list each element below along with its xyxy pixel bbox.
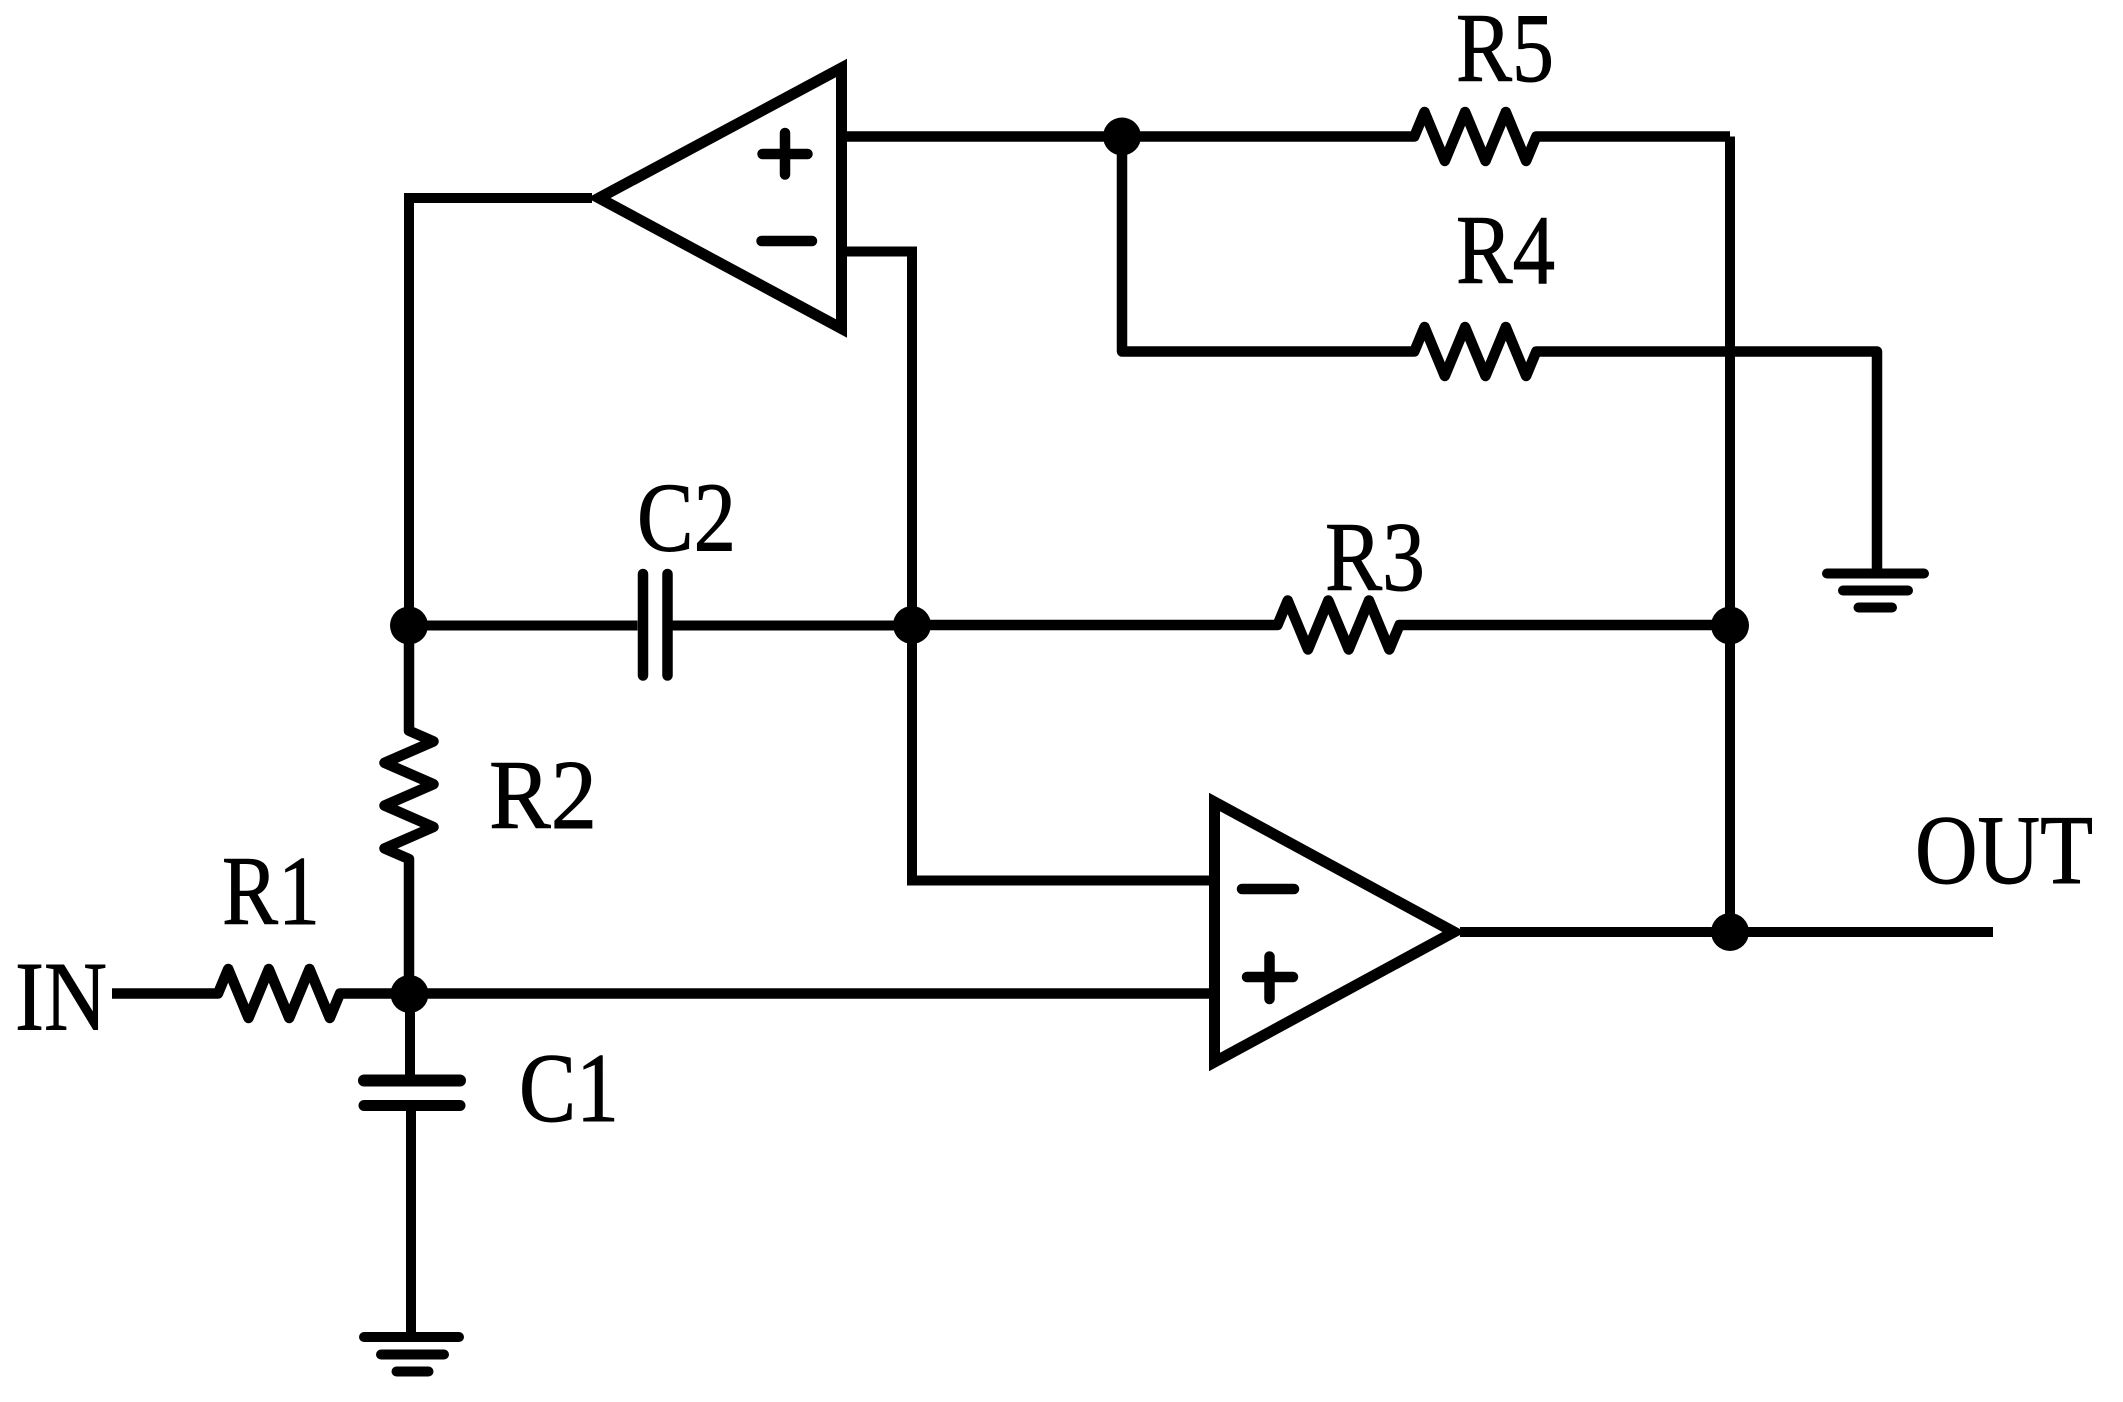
node B — [893, 606, 931, 644]
svg-text:R1: R1 — [222, 837, 320, 946]
resistor R2 with leads — [385, 626, 434, 995]
capacitor C1 — [364, 1081, 460, 1106]
wire right vertical bus — [1725, 137, 1735, 933]
node C — [1711, 607, 1749, 645]
node J1 — [1103, 118, 1141, 156]
node A — [390, 607, 428, 645]
wire U2 output to OUT — [1460, 927, 1993, 937]
wire U1 + input with resistor R5 to right bus — [842, 112, 1731, 161]
wire C1 to ground — [406, 1106, 416, 1338]
wire node D to C1 — [405, 994, 415, 1080]
svg-text:C1: C1 — [519, 1034, 619, 1143]
capacitor C2 — [643, 574, 668, 676]
node D — [391, 975, 429, 1013]
wire U1 - input to U2 - input — [842, 252, 1215, 881]
wire C2 to node B — [673, 621, 913, 631]
svg-text:OUT: OUT — [1915, 796, 2093, 905]
svg-text:IN: IN — [15, 943, 107, 1052]
wire U1 output to node A — [409, 198, 592, 626]
svg-text:R2: R2 — [489, 741, 597, 850]
wire node B through resistor R3 to node C — [912, 601, 1730, 650]
op-amp U2 — [1215, 802, 1455, 1062]
wire IN through resistor R1 to U2 + input — [112, 969, 1214, 1018]
ground left — [364, 1337, 459, 1372]
svg-text:R4: R4 — [1456, 196, 1555, 305]
wire node A to C2 — [409, 621, 638, 631]
svg-text:R3: R3 — [1325, 503, 1425, 612]
op-amp U1 — [599, 68, 842, 329]
svg-text:R5: R5 — [1456, 0, 1554, 103]
node OUT — [1711, 913, 1749, 951]
wire J1 down through resistor R4 to ground — [1122, 137, 1877, 574]
ground right — [1827, 574, 1924, 608]
svg-text:C2: C2 — [637, 464, 736, 573]
